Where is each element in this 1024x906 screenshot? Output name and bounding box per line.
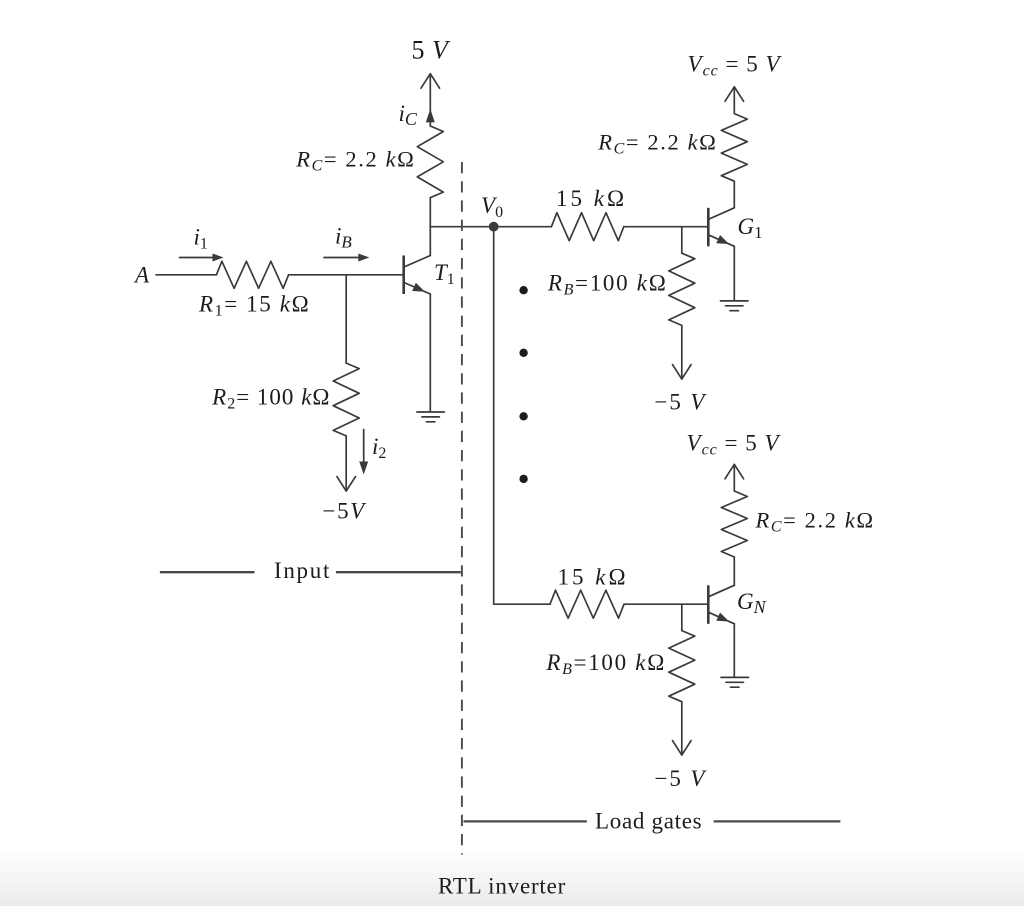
- wire RB to -5V arrow (G1): [681, 325, 683, 378]
- resistor RB (GN): [669, 631, 695, 702]
- wire V0 down to GN branch: [494, 227, 550, 605]
- arrowhead -5V (GN): [673, 741, 692, 756]
- current arrow iC: [426, 109, 435, 123]
- wire RC to Vcc arrow (G1): [733, 87, 735, 113]
- svg-text:Load gates: Load gates: [595, 809, 702, 834]
- ground GN: [721, 677, 749, 687]
- svg-text:−5 V: −5 V: [655, 766, 708, 791]
- wire G1 emitter to ground: [733, 246, 735, 300]
- node V0 dot: [489, 222, 499, 232]
- ground G1: [721, 301, 749, 311]
- resistor RC (input stage): [417, 126, 443, 198]
- current arrow i2: [363, 430, 365, 464]
- wire T1 emitter to ground: [429, 294, 431, 412]
- wire GN emitter to ground: [733, 624, 735, 677]
- transistor G1: [707, 208, 710, 247]
- input bracket right line: [336, 571, 461, 573]
- wire RC to 5V arrow: [429, 74, 431, 126]
- wire 15k to GN base: [624, 603, 708, 605]
- svg-text:5 V: 5 V: [412, 35, 452, 64]
- svg-text:Vcc = 5 V: Vcc = 5 V: [687, 431, 782, 459]
- arrowhead Vcc (GN): [725, 464, 744, 479]
- resistor RC (GN): [721, 491, 747, 557]
- wire GN collector vertical: [733, 557, 735, 585]
- wire T1 collector vertical: [429, 198, 431, 256]
- dashed boundary RTL inverter / load gates: [461, 162, 463, 855]
- arrowhead -5V (input): [337, 477, 356, 492]
- wire G1 base junction to RB: [681, 227, 683, 254]
- wire collector to V0 node: [430, 226, 551, 228]
- wire 15k to G1 base: [624, 226, 709, 228]
- arrowhead 5V supply: [421, 74, 440, 89]
- ground T1: [417, 412, 445, 422]
- arrowhead -5V (G1): [673, 365, 692, 380]
- wire A to R1: [156, 274, 216, 276]
- resistor 15k (G1 input): [551, 213, 623, 241]
- wire RC to Vcc arrow (GN): [733, 465, 735, 491]
- wire R1 to T1 base: [289, 274, 404, 276]
- transistor T1: [402, 256, 405, 295]
- svg-text:−5V: −5V: [323, 499, 368, 524]
- wire RB to -5V arrow (GN): [681, 702, 683, 755]
- resistor R2: [333, 363, 359, 436]
- svg-text:Vcc = 5 V: Vcc = 5 V: [688, 52, 783, 80]
- load gates bracket left line: [464, 820, 587, 822]
- current arrow iB: [324, 257, 361, 259]
- svg-text:Input: Input: [274, 558, 331, 583]
- resistor RC (G1): [721, 114, 747, 182]
- current arrow i1: [180, 257, 216, 259]
- transistor GN: [707, 585, 710, 624]
- wire junction to R2: [345, 275, 347, 363]
- wire G1 collector vertical: [733, 181, 735, 208]
- dots ellipsis between load gates: [519, 286, 527, 294]
- resistor RB (G1): [669, 253, 695, 325]
- load gates bracket right line: [714, 820, 841, 822]
- svg-text:A: A: [133, 263, 150, 288]
- arrowhead Vcc (G1): [725, 87, 744, 102]
- svg-text:15 kΩ: 15 kΩ: [556, 186, 627, 211]
- svg-text:15 kΩ: 15 kΩ: [558, 565, 629, 590]
- wire R2 to -5V arrow: [345, 436, 347, 491]
- page bottom shade: [0, 846, 1024, 906]
- input bracket left line: [160, 571, 255, 573]
- svg-text:RTL inverter: RTL inverter: [438, 874, 566, 899]
- resistor R1: [216, 261, 288, 288]
- svg-text:−5 V: −5 V: [655, 390, 708, 415]
- wire GN base junction to RB: [681, 604, 683, 630]
- resistor 15k (GN input): [550, 590, 624, 618]
